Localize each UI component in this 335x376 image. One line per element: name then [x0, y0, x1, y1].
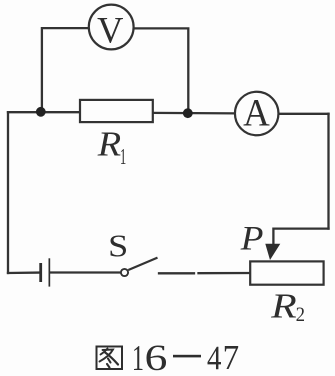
caption digit 4 [207, 347, 220, 369]
wire: voltmeter left lead down to node A [42, 28, 89, 111]
wire: ammeter right lead [278, 113, 328, 115]
caption hanzi TU: inner winter component strokes [101, 349, 108, 355]
caption digit 7 [225, 346, 238, 369]
label P [241, 227, 263, 250]
wire: switch to R2, segment 2 [199, 272, 251, 275]
label S [110, 235, 125, 256]
wire: R1 to ammeter [153, 112, 235, 115]
battery positive plate (long thin) [49, 258, 51, 286]
resistor R1 box [80, 100, 153, 122]
caption digit 1 [134, 346, 143, 370]
wiper arrowhead [265, 244, 280, 260]
wire: right rail vertical [327, 114, 329, 229]
ammeter circle [235, 92, 279, 136]
wire: left rail top horizontal to R1 [8, 111, 80, 113]
wire: battery to switch [51, 271, 121, 273]
voltmeter V glyph [97, 18, 122, 43]
caption hanzi TU: enclosure box [97, 347, 123, 370]
ammeter A glyph [244, 100, 270, 125]
label R1: subscript 1 [121, 149, 125, 164]
switch blade [128, 258, 157, 270]
caption digit 6 [147, 346, 167, 371]
wire: bottom left to battery [8, 271, 39, 274]
label R2: R [271, 295, 296, 318]
wire: rheostat wiper feed and stem [273, 229, 328, 246]
label R1: R [98, 133, 121, 156]
node B junction dot [183, 108, 193, 118]
wire: voltmeter right lead down to node B [134, 28, 189, 112]
wire: switch to R2, segment 1 [159, 272, 194, 274]
wire: left rail vertical [7, 112, 9, 273]
voltmeter circle [89, 5, 134, 50]
caption dash [173, 355, 201, 358]
node A junction dot [36, 107, 46, 117]
label R2: subscript 2 [297, 307, 305, 321]
battery negative plate (short thick) [39, 263, 42, 282]
rheostat R2 box [250, 261, 323, 284]
switch pivot circle [121, 269, 128, 276]
